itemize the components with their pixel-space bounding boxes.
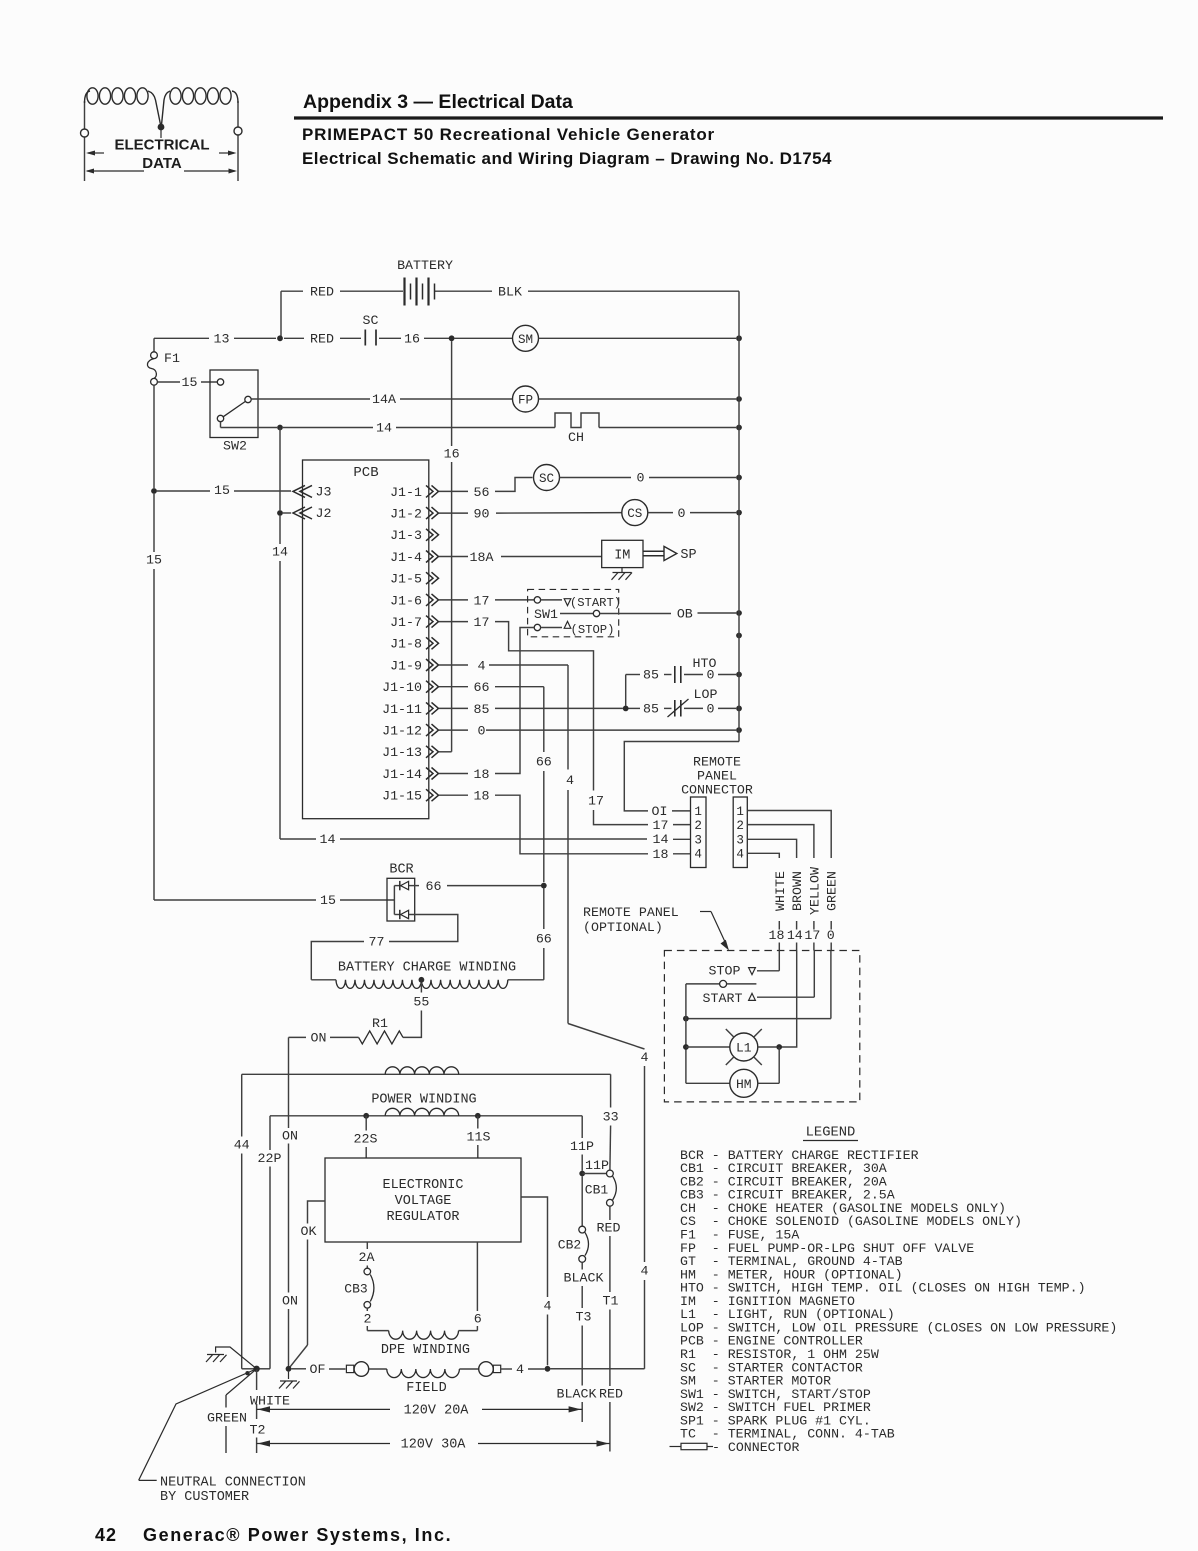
svg-text:J1-4: J1-4 bbox=[390, 550, 422, 565]
wire 77 BCR output bbox=[311, 915, 458, 980]
connector J1-5 bbox=[390, 572, 438, 587]
svg-text:18: 18 bbox=[474, 789, 490, 804]
ground under IM bbox=[612, 568, 633, 580]
connector J1-8 bbox=[390, 637, 438, 652]
connector J1-6 bbox=[390, 593, 438, 608]
remote panel connector left half bbox=[691, 797, 707, 868]
svg-text:BROWN: BROWN bbox=[790, 871, 805, 911]
switch start/stop contact bbox=[686, 980, 757, 987]
svg-text:SW2: SW2 bbox=[223, 439, 247, 454]
wire 90 to CS bbox=[496, 512, 622, 515]
wire 33 right leg to CB1 bbox=[603, 1074, 619, 1170]
DPE winding bbox=[364, 1242, 482, 1358]
svg-text:DATA: DATA bbox=[142, 155, 182, 172]
svg-text:ON: ON bbox=[311, 1031, 327, 1046]
svg-text:66: 66 bbox=[474, 680, 490, 695]
connector J1-2 bbox=[390, 507, 438, 522]
wire RED battery to node 13 bbox=[280, 291, 282, 338]
svg-text:SW1: SW1 bbox=[534, 607, 558, 622]
svg-text:Appendix 3 — Electrical Data: Appendix 3 — Electrical Data bbox=[303, 91, 573, 113]
wire J1-7 stub 17 bbox=[439, 615, 489, 630]
wire yellow pin2 bbox=[747, 825, 814, 858]
switch LOP low oil pressure bbox=[629, 687, 737, 717]
dimension 120V 20A bbox=[257, 1404, 583, 1419]
wire GREEN bbox=[207, 1369, 257, 1453]
svg-text:OB: OB bbox=[677, 606, 693, 621]
svg-text:18: 18 bbox=[769, 928, 785, 943]
svg-text:6: 6 bbox=[474, 1312, 482, 1327]
field winding bbox=[369, 1369, 479, 1396]
wire J1-1 stub 56 bbox=[439, 485, 489, 500]
svg-text:4: 4 bbox=[641, 1050, 649, 1065]
svg-text:15: 15 bbox=[146, 553, 162, 568]
wire yellow START bbox=[703, 951, 815, 1007]
svg-text:14: 14 bbox=[320, 832, 336, 847]
svg-text:NEUTRAL CONNECTION: NEUTRAL CONNECTION bbox=[160, 1476, 306, 1491]
spark plug SP arrow SP1 bbox=[643, 546, 697, 563]
svg-text:BLACK: BLACK bbox=[557, 1387, 597, 1402]
svg-text:14: 14 bbox=[787, 928, 803, 943]
wire common left vertical bbox=[685, 984, 687, 1083]
connector J1-15 bbox=[382, 789, 438, 804]
connector J1-4 bbox=[390, 550, 438, 565]
svg-text:18: 18 bbox=[653, 847, 669, 862]
wire 18A to IM bbox=[501, 556, 602, 558]
svg-text:0: 0 bbox=[637, 471, 645, 486]
connector J1-11 bbox=[382, 702, 438, 717]
node: dot 66 bbox=[541, 883, 547, 889]
remote panel optional dashed box bbox=[664, 951, 859, 1102]
svg-text:CB1: CB1 bbox=[585, 1183, 609, 1198]
svg-text:4: 4 bbox=[544, 1299, 552, 1314]
svg-text:17: 17 bbox=[804, 928, 820, 943]
wire 14 vertical to J2 bbox=[272, 428, 288, 840]
wire green to common bbox=[686, 951, 831, 1019]
svg-text:17: 17 bbox=[474, 615, 490, 630]
svg-text:17: 17 bbox=[474, 593, 490, 608]
connector J2 bbox=[283, 506, 332, 521]
node: dot common L1 bbox=[683, 1044, 689, 1050]
svg-text:CB2: CB2 bbox=[558, 1238, 581, 1253]
legend entry connector symbol bbox=[670, 1440, 800, 1455]
svg-text:FP: FP bbox=[518, 394, 533, 408]
wire color label BROWN bbox=[787, 871, 805, 950]
svg-text:85: 85 bbox=[643, 702, 659, 717]
node: dot HTO bus bbox=[736, 672, 742, 678]
wire 56 to SC coil bbox=[495, 478, 533, 492]
page title block bbox=[294, 91, 1163, 168]
svg-text:J1-6: J1-6 bbox=[390, 593, 422, 608]
svg-text:4: 4 bbox=[694, 848, 702, 862]
svg-text:(OPTIONAL): (OPTIONAL) bbox=[583, 920, 663, 935]
svg-text:R1: R1 bbox=[372, 1016, 388, 1031]
svg-text:ON: ON bbox=[282, 1129, 298, 1144]
wire neutral leader bbox=[139, 1369, 306, 1505]
svg-text:PANEL: PANEL bbox=[697, 769, 737, 784]
fuse F1, 15A bbox=[147, 338, 180, 385]
wire BLACK T3 bbox=[557, 1262, 604, 1422]
wire RED T1 bbox=[597, 1206, 623, 1451]
svg-text:55: 55 bbox=[413, 995, 429, 1010]
svg-text:GREEN: GREEN bbox=[207, 1411, 247, 1426]
hour meter HM bbox=[686, 1047, 779, 1097]
svg-text:90: 90 bbox=[474, 507, 490, 522]
svg-text:4: 4 bbox=[566, 773, 574, 788]
svg-text:22S: 22S bbox=[354, 1132, 378, 1147]
svg-text:18A: 18A bbox=[470, 550, 494, 565]
node: dot CS-0 bus bbox=[736, 510, 742, 516]
switch HTO high temp oil bbox=[626, 656, 736, 706]
svg-text:OF: OF bbox=[310, 1362, 326, 1377]
svg-text:LEGEND: LEGEND bbox=[806, 1126, 856, 1141]
svg-text:18: 18 bbox=[474, 767, 490, 782]
svg-text:ELECTRICAL: ELECTRICAL bbox=[115, 137, 210, 154]
wire 15 F1 to SW2 bbox=[157, 375, 217, 390]
svg-text:(START): (START) bbox=[570, 596, 621, 610]
svg-text:RED: RED bbox=[310, 285, 334, 300]
svg-text:FIELD: FIELD bbox=[406, 1381, 447, 1396]
wire J1-4 stub 18A bbox=[439, 550, 493, 565]
svg-text:15: 15 bbox=[320, 893, 336, 908]
svg-text:SM: SM bbox=[518, 333, 533, 347]
node: dot 11S tap bbox=[475, 1113, 481, 1119]
electronic voltage regulator U1 bbox=[325, 1158, 521, 1242]
wire color label YELLOW bbox=[804, 867, 822, 950]
svg-text:J1-11: J1-11 bbox=[382, 702, 422, 717]
BLK bus right vertical bbox=[624, 291, 739, 819]
svg-text:REMOTE PANEL: REMOTE PANEL bbox=[583, 905, 679, 920]
wire 0 J1-12 to bus bbox=[486, 729, 736, 731]
node: dot 0 bus bbox=[736, 727, 742, 733]
wire color label WHITE bbox=[769, 871, 788, 950]
svg-text:RED: RED bbox=[599, 1387, 623, 1402]
wire white pin4 bbox=[747, 853, 779, 858]
node: dot 11P junction bbox=[579, 1171, 585, 1177]
wire ON vertical bbox=[282, 1037, 298, 1368]
wire brown to L1 bbox=[782, 951, 797, 1048]
svg-text:77: 77 bbox=[369, 935, 385, 950]
wire 11S to EVR bbox=[467, 1116, 491, 1158]
svg-text:BATTERY CHARGE WINDING: BATTERY CHARGE WINDING bbox=[338, 960, 516, 975]
svg-text:0: 0 bbox=[827, 928, 835, 943]
ground at OF bbox=[279, 1372, 300, 1389]
wire green pin1 bbox=[747, 811, 831, 859]
svg-text:15: 15 bbox=[182, 375, 198, 390]
node: dot 85 junction bbox=[623, 706, 629, 712]
svg-text:OI: OI bbox=[652, 804, 668, 819]
svg-text:4: 4 bbox=[516, 1362, 524, 1377]
svg-text:J1-10: J1-10 bbox=[382, 680, 422, 695]
svg-text:2: 2 bbox=[694, 819, 702, 833]
choke solenoid CS bbox=[622, 500, 736, 526]
node: dot OB bus bbox=[736, 610, 742, 616]
svg-text:17: 17 bbox=[588, 794, 604, 809]
node: dot J2 bbox=[277, 510, 283, 516]
svg-text:J1-3: J1-3 bbox=[390, 528, 422, 543]
wire color label GREEN bbox=[825, 871, 840, 950]
svg-text:3: 3 bbox=[736, 834, 744, 848]
svg-text:J1-9: J1-9 bbox=[390, 658, 422, 673]
svg-text:120V 30A: 120V 30A bbox=[401, 1438, 467, 1453]
fuel pump FP bbox=[513, 386, 737, 412]
svg-text:START: START bbox=[703, 991, 743, 1006]
svg-text:4: 4 bbox=[641, 1264, 649, 1279]
svg-text:BLACK: BLACK bbox=[564, 1271, 604, 1286]
svg-text:J1-8: J1-8 bbox=[390, 637, 422, 652]
node: dot FP bus bbox=[736, 396, 742, 402]
node: junction dot 16 bbox=[449, 335, 455, 341]
wire 15 left vertical to BCR bbox=[146, 385, 394, 908]
dimension 120V 30A bbox=[257, 1438, 610, 1453]
wire 15 to J3 bbox=[157, 483, 291, 498]
svg-text:J1-14: J1-14 bbox=[382, 767, 422, 782]
wire 22P left leg bbox=[257, 1116, 282, 1369]
wire 55 tap bbox=[403, 983, 429, 1038]
connector J1-7 bbox=[390, 615, 438, 630]
connector J1-9 bbox=[390, 658, 438, 673]
power winding row 1 bbox=[242, 1067, 611, 1108]
svg-text:F1: F1 bbox=[164, 351, 180, 366]
wire J1-2 stub 90 bbox=[439, 507, 489, 522]
ignition magneto IM bbox=[602, 540, 643, 567]
svg-text:CH: CH bbox=[568, 430, 584, 445]
svg-text:17: 17 bbox=[653, 818, 669, 833]
svg-text:REGULATOR: REGULATOR bbox=[387, 1210, 460, 1225]
wire J1-6 stub 17 bbox=[439, 593, 489, 608]
svg-text:2A: 2A bbox=[359, 1250, 375, 1265]
logo: electrical data coil emblem bbox=[81, 88, 243, 181]
svg-text:POWER WINDING: POWER WINDING bbox=[371, 1093, 476, 1108]
svg-text:85: 85 bbox=[474, 702, 490, 717]
svg-text:OK: OK bbox=[301, 1224, 317, 1239]
svg-text:13: 13 bbox=[214, 332, 230, 347]
remote panel connector label bbox=[681, 755, 753, 798]
battery charge rectifier BCR bbox=[387, 863, 415, 922]
connector J1-14 bbox=[382, 767, 438, 782]
power winding row 2 bbox=[270, 1108, 582, 1116]
contactor contact SC (crank) bbox=[363, 313, 449, 347]
remote panel connector right half bbox=[733, 797, 747, 868]
svg-text:J1-5: J1-5 bbox=[390, 572, 422, 587]
wire 14A to FP bbox=[251, 392, 512, 407]
svg-text:16: 16 bbox=[404, 332, 420, 347]
svg-text:PCB: PCB bbox=[353, 465, 378, 481]
run light L1 bbox=[686, 1029, 777, 1065]
svg-text:33: 33 bbox=[603, 1110, 619, 1125]
terminal TC left bbox=[346, 1362, 368, 1377]
svg-text:CONNECTOR: CONNECTOR bbox=[681, 783, 753, 798]
wire J1-15 stub 18 bbox=[439, 789, 489, 804]
resistor R1 1 ohm 25W bbox=[289, 1016, 404, 1046]
svg-text:HTO: HTO bbox=[693, 656, 717, 671]
switch SW2 (fuel primer) bbox=[210, 370, 277, 454]
svg-text:LOP: LOP bbox=[694, 687, 718, 702]
svg-text:11S: 11S bbox=[467, 1130, 491, 1145]
svg-text:IM: IM bbox=[614, 549, 630, 564]
legend title bbox=[803, 1126, 858, 1141]
battery BT bbox=[281, 258, 739, 306]
svg-text:42: 42 bbox=[95, 1525, 117, 1545]
wire J1-10 stub 66 bbox=[439, 680, 489, 695]
switch SW1 start/stop (dashed) bbox=[528, 589, 671, 636]
node: neutral junction dot bbox=[253, 1366, 259, 1372]
wire J1-12 stub 0 bbox=[439, 724, 486, 739]
wire WHITE T2 bbox=[250, 1369, 290, 1453]
svg-text:ON: ON bbox=[282, 1294, 298, 1309]
node: dot 22S tap bbox=[363, 1113, 369, 1119]
svg-text:0: 0 bbox=[478, 724, 486, 739]
svg-text:J1-1: J1-1 bbox=[390, 485, 422, 500]
svg-text:85: 85 bbox=[643, 668, 659, 683]
svg-text:ELECTRONIC: ELECTRONIC bbox=[382, 1178, 463, 1193]
svg-text:11P: 11P bbox=[585, 1158, 609, 1173]
wire 14 long row to remote pin3 bbox=[280, 832, 691, 847]
starter motor SM bbox=[454, 325, 736, 351]
wire 66 BCR output bbox=[409, 879, 541, 894]
svg-text:PRIMEPACT 50 Recreational Vehi: PRIMEPACT 50 Recreational Vehicle Genera… bbox=[302, 125, 715, 144]
svg-text:WHITE: WHITE bbox=[773, 871, 788, 911]
svg-text:15: 15 bbox=[214, 483, 230, 498]
circuit breaker CB3 2.5A bbox=[344, 1268, 374, 1308]
svg-text:J1-13: J1-13 bbox=[382, 745, 422, 760]
wire 16 vertical to J1-13 bbox=[439, 341, 460, 752]
svg-text:RED: RED bbox=[597, 1221, 621, 1236]
circuit breaker CB1 30A bbox=[582, 1158, 616, 1206]
svg-text:1: 1 bbox=[736, 805, 744, 819]
wire 11P right leg bbox=[570, 1116, 594, 1171]
node: stray dot on bus bbox=[736, 633, 742, 639]
svg-text:1: 1 bbox=[694, 805, 702, 819]
svg-text:T2: T2 bbox=[250, 1423, 266, 1438]
svg-text:- CONNECTOR: - CONNECTOR bbox=[712, 1440, 800, 1455]
wire 17 J1-7 route down to remote pin2 bbox=[495, 622, 691, 833]
node: dot SC-0 bus bbox=[736, 475, 742, 481]
node: dot CH bus bbox=[736, 425, 742, 431]
wire J1-11 stub 85 bbox=[439, 702, 489, 717]
node: dot LOP bus bbox=[736, 706, 742, 712]
wire OK EVR left bbox=[289, 1201, 326, 1369]
wire OB to bus bbox=[677, 606, 736, 621]
svg-text:J1-15: J1-15 bbox=[382, 789, 422, 804]
svg-text:T1: T1 bbox=[603, 1294, 619, 1309]
footer: page number and company bbox=[95, 1525, 452, 1545]
svg-text:BLK: BLK bbox=[498, 285, 522, 300]
wire brown pin3 bbox=[747, 839, 796, 858]
node: dot common top bbox=[683, 1016, 689, 1022]
wire 18 J1-14 to SW1 stop bbox=[495, 628, 534, 774]
svg-text:14: 14 bbox=[376, 421, 392, 436]
svg-text:4: 4 bbox=[478, 658, 486, 673]
svg-text:Electrical Schematic and Wirin: Electrical Schematic and Wiring Diagram … bbox=[302, 149, 832, 168]
svg-text:DPE WINDING: DPE WINDING bbox=[381, 1343, 470, 1358]
wire 14 row with choke heater bbox=[277, 421, 555, 436]
svg-text:0: 0 bbox=[707, 702, 715, 717]
svg-text:BATTERY: BATTERY bbox=[397, 258, 453, 273]
svg-text:RED: RED bbox=[310, 332, 334, 347]
wire 17 J1-6 to SW1 start bbox=[495, 599, 534, 601]
svg-text:14A: 14A bbox=[372, 392, 396, 407]
circuit breaker CB2 20A bbox=[558, 1176, 589, 1262]
node: dot SM to BLK bus bbox=[736, 335, 742, 341]
wire OF node / junction bbox=[286, 1362, 346, 1377]
svg-text:SC: SC bbox=[539, 472, 555, 486]
node: dot L1 right bbox=[776, 1044, 782, 1050]
svg-text:SP: SP bbox=[680, 548, 696, 563]
wire field to 4 riser bbox=[550, 1368, 644, 1370]
wire 22S to EVR bbox=[354, 1116, 378, 1158]
svg-text:VOLTAGE: VOLTAGE bbox=[395, 1194, 452, 1209]
svg-text:2: 2 bbox=[364, 1312, 372, 1327]
svg-text:44: 44 bbox=[234, 1138, 250, 1153]
svg-text:14: 14 bbox=[272, 545, 288, 560]
wire 44 left leg bbox=[234, 1074, 254, 1369]
wire 13 / RED / 16 (starter row) bbox=[154, 332, 361, 347]
svg-text:GREEN: GREEN bbox=[825, 871, 840, 911]
svg-text:REMOTE: REMOTE bbox=[693, 755, 741, 770]
svg-text:L1: L1 bbox=[736, 1041, 752, 1056]
svg-text:J1-2: J1-2 bbox=[390, 507, 422, 522]
svg-text:0: 0 bbox=[678, 506, 686, 521]
svg-text:Generac® Power Systems, Inc.: Generac® Power Systems, Inc. bbox=[143, 1525, 452, 1545]
svg-text:66: 66 bbox=[426, 879, 442, 894]
wire 4 EVR right bbox=[521, 1197, 552, 1365]
PCB engine controller box bbox=[303, 460, 429, 819]
node: dot 55 center tap bbox=[419, 977, 425, 983]
connector J1-1 bbox=[390, 485, 438, 500]
svg-text:HM: HM bbox=[736, 1077, 752, 1092]
svg-text:3: 3 bbox=[694, 834, 702, 848]
wire J1-9 stub 4 bbox=[439, 658, 486, 673]
svg-text:J3: J3 bbox=[316, 485, 332, 500]
svg-text:66: 66 bbox=[536, 755, 552, 770]
svg-text:2: 2 bbox=[736, 819, 744, 833]
svg-text:BCR: BCR bbox=[389, 863, 413, 878]
svg-text:14: 14 bbox=[653, 832, 669, 847]
svg-text:22P: 22P bbox=[258, 1151, 282, 1166]
wire J1-14 stub 18 bbox=[439, 767, 489, 782]
svg-text:11P: 11P bbox=[570, 1139, 594, 1154]
remote panel optional label + pointer bbox=[583, 905, 729, 951]
svg-text:4: 4 bbox=[736, 848, 744, 862]
svg-text:BY CUSTOMER: BY CUSTOMER bbox=[160, 1490, 249, 1505]
svg-text:SC: SC bbox=[363, 313, 379, 328]
wire 66 J1-10 down to BCR bbox=[495, 687, 552, 980]
svg-text:66: 66 bbox=[536, 932, 552, 947]
svg-text:STOP: STOP bbox=[709, 964, 741, 979]
svg-text:T3: T3 bbox=[576, 1310, 592, 1325]
svg-text:CB3: CB3 bbox=[344, 1282, 367, 1297]
wire 85 J1-11 to HTO/LOP bbox=[495, 707, 623, 709]
ground at neutral bbox=[206, 1347, 257, 1369]
svg-text:J2: J2 bbox=[316, 506, 332, 521]
starter contactor coil SC bbox=[534, 465, 737, 491]
connector J1-13 bbox=[382, 745, 438, 760]
svg-text:16: 16 bbox=[444, 447, 460, 462]
svg-text:CS: CS bbox=[627, 507, 642, 521]
svg-text:120V 20A: 120V 20A bbox=[404, 1404, 470, 1419]
battery charge winding bbox=[311, 960, 516, 988]
svg-text:J1-12: J1-12 bbox=[382, 724, 422, 739]
svg-text:(STOP): (STOP) bbox=[571, 623, 615, 637]
wire white STOP bbox=[709, 951, 780, 979]
wire 4 J1-9 long route bbox=[489, 665, 649, 1369]
connector J1-10 bbox=[382, 680, 438, 695]
node: dot field 4 junction bbox=[545, 1366, 551, 1372]
wire 2A to CB3 bbox=[359, 1242, 375, 1268]
connector J1-3 bbox=[390, 528, 438, 543]
svg-text:56: 56 bbox=[474, 485, 490, 500]
node: junction dot RED/13 bbox=[277, 335, 283, 341]
